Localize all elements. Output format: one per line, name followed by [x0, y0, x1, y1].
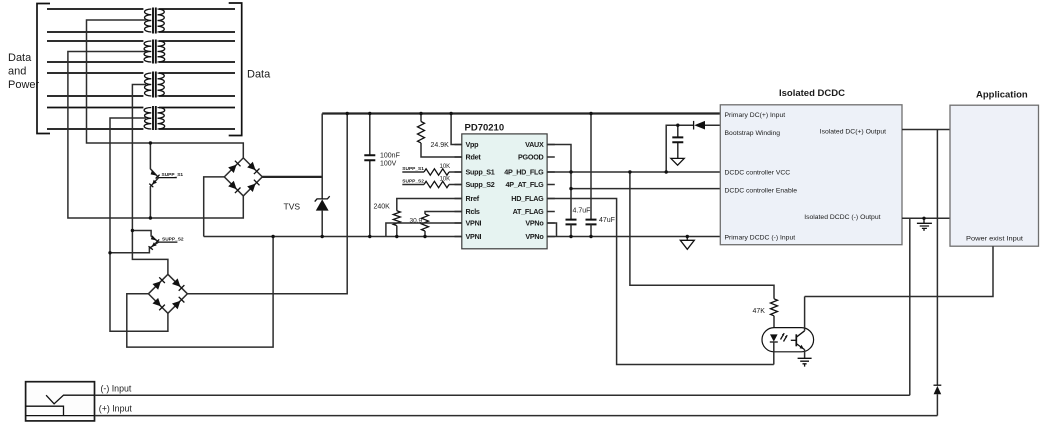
- svg-text:Rref: Rref: [466, 194, 480, 203]
- wire opto collector up: [804, 297, 806, 331]
- resistor R3 10K (SUPP_S2): [402, 177, 462, 188]
- svg-text:PGOOD: PGOOD: [518, 153, 544, 162]
- pin labels U1 left: [466, 140, 495, 241]
- svg-text:Vpp: Vpp: [466, 140, 480, 149]
- junction dots AC pair and suppressors: [108, 141, 152, 254]
- pin labels DCDC: [725, 112, 887, 242]
- svg-text:Rdet: Rdet: [466, 153, 482, 162]
- ground opto emitter: [798, 358, 812, 366]
- svg-text:VPNI: VPNI: [466, 219, 482, 228]
- diode bridge BR1: [224, 158, 262, 196]
- resistor R5 30.9: [410, 212, 463, 237]
- svg-text:Power: Power: [8, 79, 40, 91]
- svg-text:HD_FLAG: HD_FLAG: [511, 194, 544, 203]
- capacitor C4 bootstrap: [672, 125, 683, 158]
- svg-text:10K: 10K: [440, 164, 451, 170]
- transformer T4: [47, 106, 235, 130]
- svg-text:Application: Application: [976, 90, 1028, 101]
- resistor R2 10K (SUPP_S1): [402, 164, 462, 175]
- wire VPNo jog to rail: [547, 223, 556, 237]
- wire DC+ output down to diode: [936, 130, 938, 386]
- wire (+) input rail: [95, 415, 938, 417]
- svg-text:Isolated DCDC (-) Output: Isolated DCDC (-) Output: [804, 214, 880, 221]
- diode bridge BR2: [148, 274, 187, 313]
- op-amp U1 PD70210 controller: [462, 123, 547, 249]
- svg-text:Power exist Input: Power exist Input: [966, 235, 1023, 242]
- svg-text:SUPP_S2: SUPP_S2: [402, 178, 424, 184]
- svg-text:4P_AT_FLG: 4P_AT_FLG: [506, 180, 545, 189]
- wire 4P_HD_FLG to DCDC controller VCC: [547, 171, 720, 173]
- svg-text:Bootstrap Winding: Bootstrap Winding: [725, 130, 781, 137]
- svg-text:SUPP_S1: SUPP_S1: [162, 172, 184, 178]
- optocoupler U2: [762, 328, 814, 365]
- wire node to DCDC controller Enable: [571, 188, 720, 190]
- pin stubs U1 left: [455, 145, 462, 237]
- svg-text:Rcls: Rcls: [466, 207, 480, 216]
- wire T1 center tap to bridge1 AC top: [87, 20, 244, 158]
- resistor R4 240K: [374, 199, 463, 237]
- resistor R6 47K: [753, 299, 778, 334]
- svg-text:VPNo: VPNo: [525, 232, 544, 241]
- svg-text:47uF: 47uF: [599, 217, 615, 224]
- svg-text:Supp_S1: Supp_S1: [466, 168, 495, 177]
- wire isolated DC+ output to application: [902, 129, 950, 131]
- junction dots VPORT+ rail: [346, 112, 593, 115]
- svg-text:100nF: 100nF: [380, 153, 400, 160]
- wire bridge1 plus to TVS node: [262, 176, 322, 178]
- svg-text:Isolated DC(+) Output: Isolated DC(+) Output: [820, 128, 886, 135]
- wire bridge1 minus to negative rail: [204, 177, 225, 237]
- svg-text:240K: 240K: [374, 204, 391, 211]
- svg-text:Primary DC(+) Input: Primary DC(+) Input: [725, 112, 786, 119]
- svg-text:PD70210: PD70210: [465, 123, 505, 134]
- svg-text:VPNI: VPNI: [466, 232, 482, 241]
- wire T2 center tap to bridge1 AC bottom: [68, 52, 243, 219]
- capacitor C1 100nF 100V: [364, 114, 400, 237]
- wire isolated DCDC- output to application: [902, 217, 950, 219]
- auxiliary input source box: [26, 382, 95, 421]
- svg-text:DCDC controller Enable: DCDC controller Enable: [725, 188, 798, 195]
- svg-text:(-) Input: (-) Input: [101, 384, 132, 394]
- svg-text:Data: Data: [247, 69, 271, 81]
- wire T3 center tap to bridge2 AC top: [132, 85, 168, 275]
- wire opto emitter to ground: [804, 350, 806, 359]
- svg-text:DCDC controller VCC: DCDC controller VCC: [725, 170, 791, 177]
- suppressor SUPP_S1: [149, 143, 183, 218]
- svg-text:Isolated DCDC: Isolated DCDC: [779, 88, 845, 99]
- suppressor SUPP_S2: [110, 231, 184, 253]
- transformer T1: [47, 8, 235, 34]
- wire Vpp to VPORT+ rail: [451, 114, 462, 145]
- wire VPNI to negative rail: [386, 223, 462, 237]
- svg-text:Supp_S2: Supp_S2: [466, 180, 495, 189]
- ground primary return: [680, 237, 694, 250]
- wire HD_FLAG to optocoupler LED cathode: [547, 199, 774, 365]
- ground isolated secondary: [917, 218, 932, 231]
- wire VAUX down to C2: [547, 145, 571, 220]
- diode D2 bootstrap: [694, 121, 705, 130]
- svg-text:4.7uF: 4.7uF: [573, 208, 591, 215]
- svg-text:AT_FLAG: AT_FLAG: [513, 207, 545, 216]
- svg-text:Data: Data: [8, 52, 32, 64]
- wire (-) input rail: [95, 394, 910, 396]
- connector bracket left: [37, 4, 50, 134]
- svg-text:(+) Input: (+) Input: [99, 404, 133, 414]
- isolated DCDC converter module: [720, 88, 902, 245]
- wire T4 center tap to bridge2 AC bottom: [110, 118, 168, 331]
- wire DCDC- output down to (-) input rail: [909, 218, 911, 395]
- junction dots VCC line: [569, 124, 925, 221]
- VPORT+ top rail: [322, 112, 720, 114]
- wire bridge2 minus to negative rail: [127, 237, 273, 348]
- transformer T2: [47, 40, 235, 64]
- pin labels U1 right: [504, 140, 544, 241]
- svg-text:24.9K: 24.9K: [431, 142, 450, 149]
- svg-text:VAUX: VAUX: [525, 140, 544, 149]
- transformer T3: [47, 72, 235, 98]
- wire bootstrap branch: [666, 125, 720, 172]
- svg-text:SUPP_S2: SUPP_S2: [162, 236, 184, 242]
- ground bootstrap: [671, 158, 684, 165]
- diode D3 backfeed: [934, 385, 942, 415]
- wire VPNo rail to Primary DCDC minus input: [547, 236, 720, 238]
- application module: [950, 90, 1039, 247]
- wire VCC node down to 47K: [630, 172, 774, 299]
- svg-text:100V: 100V: [380, 161, 397, 168]
- pin stubs U1 right: [547, 145, 555, 237]
- capacitor C2 4.7uF: [566, 208, 591, 237]
- VPORT- negative rail: [204, 236, 462, 238]
- wire bridge2 plus to VPORT+ rail: [187, 114, 347, 294]
- svg-text:SUPP_S1: SUPP_S1: [402, 166, 424, 172]
- connector bracket right: [229, 3, 242, 136]
- junction dots negative rail: [271, 235, 689, 238]
- svg-text:47K: 47K: [753, 308, 766, 315]
- svg-text:TVS: TVS: [284, 202, 301, 212]
- TVS diode D1: [315, 114, 330, 237]
- svg-text:and: and: [8, 66, 26, 78]
- resistor R1 24.9K: [418, 114, 463, 158]
- capacitor C3 47uF: [586, 114, 615, 237]
- svg-text:4P_HD_FLG: 4P_HD_FLG: [504, 168, 544, 177]
- svg-text:Primary DCDC (-) Input: Primary DCDC (-) Input: [725, 235, 796, 242]
- wire power exist input to opto collector: [805, 246, 993, 296]
- svg-text:VPNo: VPNo: [525, 219, 544, 228]
- svg-text:10K: 10K: [440, 177, 451, 183]
